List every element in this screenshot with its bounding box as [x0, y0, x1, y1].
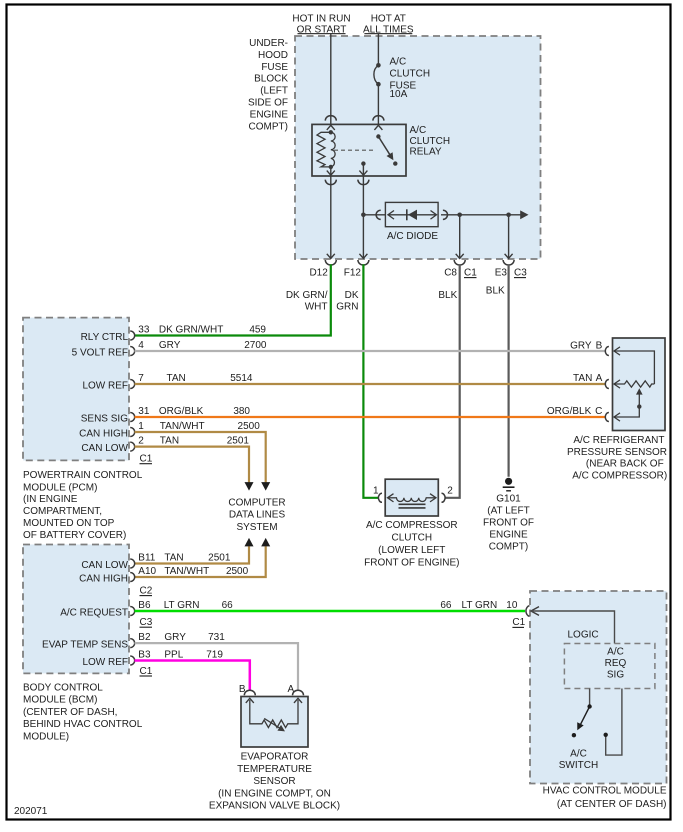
PCM pin arc SENS SIG: [130, 413, 135, 422]
relay pin arrow out (coil low side): [327, 171, 335, 176]
svg-text:CLUTCH: CLUTCH: [410, 136, 451, 147]
PCM row text 2 TAN 2501: [138, 436, 249, 447]
PCM caption: [23, 470, 143, 541]
svg-text:HVAC CONTROL MODULE: HVAC CONTROL MODULE: [543, 785, 667, 796]
svg-text:TAN/WHT: TAN/WHT: [160, 421, 205, 432]
svg-text:C8: C8: [444, 267, 457, 278]
svg-text:FUSE: FUSE: [261, 62, 288, 73]
clutch caption: [364, 520, 459, 569]
svg-text:D12: D12: [309, 267, 328, 278]
svg-text:BLK: BLK: [486, 286, 505, 297]
svg-text:2501: 2501: [208, 553, 231, 564]
svg-text:A/C DIODE: A/C DIODE: [387, 231, 438, 242]
connector arc above relay pin 86: [325, 116, 336, 121]
svg-text:(AT CENTER OF DASH): (AT CENTER OF DASH): [557, 799, 667, 810]
pin labels D12 F12 C8 C1 E3 C3: [309, 267, 527, 278]
arrow can low down: [245, 482, 254, 491]
evap thermistor internal: [250, 700, 298, 734]
svg-text:C2: C2: [140, 585, 153, 596]
wire color labels BLK BLK: [438, 286, 505, 302]
svg-text:C1: C1: [464, 267, 477, 278]
sensor pin A arc: [605, 380, 609, 389]
label G101: [483, 493, 534, 552]
sensor pin C arc: [605, 413, 609, 422]
svg-text:(NEAR BACK OF: (NEAR BACK OF: [586, 459, 664, 470]
svg-text:COMPT): COMPT): [489, 541, 528, 552]
BCM caption: [23, 683, 143, 743]
HVAC caption: [543, 785, 667, 810]
wire tan/wht can high to data lines: [135, 432, 266, 483]
svg-text:UNDER-: UNDER-: [249, 38, 288, 49]
relay pin arrow (switch in): [374, 125, 382, 130]
svg-text:7: 7: [138, 373, 144, 384]
svg-text:A/C REFRIGERANT: A/C REFRIGERANT: [573, 435, 664, 446]
clutch coil internal: [388, 494, 437, 508]
connector arc at diode left: [376, 210, 381, 219]
arrow bcm can low up: [245, 538, 254, 547]
label A/C SWITCH: [559, 748, 598, 771]
svg-text:EXPANSION VALVE BLOCK): EXPANSION VALVE BLOCK): [209, 801, 340, 812]
svg-text:BLOCK: BLOCK: [254, 74, 288, 85]
svg-text:LOW REF: LOW REF: [82, 380, 128, 391]
A/C switch: [572, 704, 592, 737]
svg-text:TAN: TAN: [573, 373, 592, 384]
svg-text:B11: B11: [138, 553, 155, 564]
svg-text:FRONT OF ENGINE): FRONT OF ENGINE): [364, 557, 459, 568]
svg-text:SENSOR: SENSOR: [253, 776, 295, 787]
svg-text:POWERTRAIN CONTROL: POWERTRAIN CONTROL: [23, 470, 143, 481]
svg-text:COMPUTER: COMPUTER: [228, 498, 285, 509]
svg-text:C: C: [595, 406, 602, 417]
BCM connector label C3: [140, 617, 153, 628]
svg-text:COMPARTMENT,: COMPARTMENT,: [23, 506, 102, 517]
PCM row text 31 ORG/BLK 380: [138, 406, 250, 417]
svg-text:TEMPERATURE: TEMPERATURE: [237, 764, 312, 775]
svg-text:SWITCH: SWITCH: [559, 760, 598, 771]
wire down to C8: [459, 215, 461, 259]
svg-text:C3: C3: [140, 617, 153, 628]
BCM pin names: [42, 560, 129, 668]
label A/C REQ SIG: [605, 647, 627, 681]
computer data lines system caption: [228, 498, 285, 533]
svg-text:380: 380: [233, 406, 250, 417]
svg-text:C1: C1: [140, 454, 153, 465]
svg-text:31: 31: [138, 406, 150, 417]
label HOT IN RUN OR START: [292, 14, 350, 36]
underhood fuse block caption: [248, 38, 288, 132]
svg-text:BEHIND HVAC CONTROL: BEHIND HVAC CONTROL: [23, 719, 143, 730]
wire blk C8 down to clutch pin 2: [445, 264, 460, 498]
svg-text:CAN HIGH: CAN HIGH: [79, 428, 128, 439]
sensor pin labels GRY B / TAN A / ORG/BLK C: [547, 340, 603, 417]
diode internal line with arrows: [388, 211, 437, 220]
wire: hot in run feed to relay coil: [330, 34, 332, 133]
svg-text:GRY: GRY: [570, 340, 592, 351]
wire tan can low to data lines: [135, 447, 250, 483]
PCM row text 1 TAN/WHT 2500: [138, 421, 260, 432]
BCM pin arc EVAP TEMP SENS: [130, 639, 135, 648]
svg-text:LOW REF: LOW REF: [82, 657, 128, 668]
svg-text:LOGIC: LOGIC: [568, 630, 599, 641]
evaporator caption: [209, 752, 340, 812]
svg-text:E3: E3: [495, 267, 508, 278]
BCM connector label C1: [140, 666, 153, 677]
svg-text:REQ: REQ: [605, 658, 627, 669]
svg-text:SENS SIG: SENS SIG: [81, 413, 128, 424]
svg-text:C3: C3: [514, 267, 527, 278]
BCM box: [23, 545, 129, 674]
PCM pin arc RLY CTRL: [130, 331, 135, 340]
svg-text:TAN: TAN: [164, 553, 183, 564]
PCM pin arc 5 VOLT REF: [130, 347, 135, 356]
svg-text:EVAP TEMP SENS: EVAP TEMP SENS: [42, 639, 128, 650]
wire ppl low ref to sensor pin B: [135, 661, 250, 691]
evap pin B arrow: [246, 698, 254, 703]
svg-text:4: 4: [138, 340, 144, 351]
svg-text:B3: B3: [138, 650, 151, 661]
svg-text:MODULE (PCM): MODULE (PCM): [23, 482, 97, 493]
svg-text:(AT LEFT: (AT LEFT: [487, 505, 529, 516]
svg-text:ORG/BLK: ORG/BLK: [547, 406, 592, 417]
ground G101: [503, 478, 515, 491]
svg-text:A/C COMPRESSOR): A/C COMPRESSOR): [572, 470, 667, 481]
wire diode to ground branches with end arrow: [441, 210, 529, 219]
A/C compressor clutch box: [385, 479, 438, 516]
svg-text:2: 2: [447, 486, 453, 497]
svg-text:DK: DK: [345, 290, 359, 301]
svg-text:ORG/BLK: ORG/BLK: [159, 406, 204, 417]
svg-text:2: 2: [138, 436, 144, 447]
svg-text:F12: F12: [344, 267, 362, 278]
wire relay coil pin down to D12: [330, 167, 332, 259]
svg-text:TAN/WHT: TAN/WHT: [164, 566, 209, 577]
wire dk grn F12 down to compressor clutch: [363, 264, 378, 498]
connector C8 arrow and arc: [454, 254, 465, 265]
svg-text:2501: 2501: [227, 436, 250, 447]
svg-text:SIG: SIG: [607, 670, 624, 681]
relay dashed actuator link: [334, 149, 376, 151]
svg-text:202071: 202071: [14, 806, 48, 817]
svg-text:GRN: GRN: [336, 301, 358, 312]
arrow bcm can high up: [261, 538, 270, 547]
svg-text:RELAY: RELAY: [410, 147, 442, 158]
wire gry evap temp sens to sensor pin A: [135, 643, 299, 690]
svg-text:5 VOLT REF: 5 VOLT REF: [72, 348, 128, 359]
connector arc below relay common pin: [358, 180, 369, 185]
svg-text:B6: B6: [138, 600, 151, 611]
junction node on F12 wire: [361, 213, 366, 218]
svg-text:MODULE (BCM): MODULE (BCM): [23, 695, 97, 706]
switch contact node: [604, 733, 608, 737]
wire: fuse to relay switch: [377, 84, 379, 136]
svg-text:DK GRN/WHT: DK GRN/WHT: [159, 325, 223, 336]
svg-text:GRY: GRY: [164, 632, 186, 643]
clutch pin 2 connector arc: [442, 493, 446, 502]
wire logic to switch contact: [606, 689, 622, 756]
svg-text:66: 66: [222, 600, 234, 611]
evaporator temperature sensor box: [241, 697, 308, 748]
svg-text:HOT IN RUN: HOT IN RUN: [292, 14, 350, 25]
HVAC pin arc: [526, 606, 530, 617]
relay switch: [376, 134, 397, 166]
connector D12 arrow and arc: [325, 254, 336, 265]
svg-text:SIDE OF: SIDE OF: [248, 98, 288, 109]
BCM pin arc A/C REQUEST: [130, 607, 135, 616]
svg-text:5514: 5514: [230, 373, 253, 384]
svg-text:WHT: WHT: [305, 301, 328, 312]
wire blk E3 down to G101: [508, 264, 510, 477]
svg-text:10A: 10A: [390, 89, 408, 100]
A/C refrigerant pressure sensor box: [613, 338, 666, 431]
connector arc above relay pin 87: [373, 116, 384, 121]
svg-text:COMPT): COMPT): [249, 121, 288, 132]
svg-text:TAN: TAN: [160, 436, 179, 447]
svg-text:1: 1: [138, 421, 144, 432]
svg-text:2700: 2700: [244, 340, 267, 351]
relay common pin node: [361, 161, 365, 165]
svg-text:MODULE): MODULE): [23, 731, 69, 742]
svg-text:CLUTCH: CLUTCH: [392, 533, 433, 544]
wire org/blk sens sig to pressure sensor: [135, 416, 606, 418]
fuse A/C CLUTCH FUSE 10A: [374, 63, 381, 86]
svg-text:A: A: [596, 373, 603, 384]
svg-text:RLY CTRL: RLY CTRL: [81, 332, 129, 343]
wire tan bcm can low to data lines: [135, 546, 250, 563]
svg-text:HOT AT: HOT AT: [371, 14, 406, 25]
svg-text:33: 33: [138, 325, 150, 336]
svg-text:ENGINE: ENGINE: [250, 109, 289, 120]
svg-text:459: 459: [249, 325, 266, 336]
evaporator sensor pin B arc: [244, 690, 255, 695]
relay pin arrow out (common): [359, 171, 367, 176]
svg-text:OF BATTERY COVER): OF BATTERY COVER): [23, 530, 126, 541]
PCM box: [23, 318, 129, 461]
PCM row text 33 DK GRN/WHT 459: [138, 325, 266, 336]
svg-text:(LOWER LEFT: (LOWER LEFT: [378, 545, 445, 556]
pressure sensor caption: [567, 435, 667, 481]
wire tan low ref to pressure sensor: [135, 383, 606, 385]
wire dk grn/wht D12 to PCM RLY CTRL: [135, 264, 331, 335]
svg-text:BLK: BLK: [438, 290, 457, 301]
evap pin A arrow: [294, 698, 302, 703]
wire junction to diode: [363, 214, 385, 216]
svg-text:CLUTCH: CLUTCH: [390, 69, 431, 80]
evaporator sensor pin A arc: [293, 690, 304, 695]
svg-text:719: 719: [206, 650, 223, 661]
PCM connector label C1: [140, 454, 153, 465]
svg-text:GRY: GRY: [159, 340, 181, 351]
A/C clutch relay box: [312, 124, 406, 176]
relay coil: [317, 130, 335, 169]
clutch pin 1 connector arc: [378, 493, 382, 502]
BCM row text B3 PPL 719: [138, 650, 223, 661]
BCM pin arc CAN LOW: [130, 559, 135, 568]
svg-text:(IN ENGINE COMPT, ON: (IN ENGINE COMPT, ON: [218, 788, 331, 799]
BCM row text A10 TAN/WHT 2500: [138, 566, 248, 577]
connector E3 arrow and arc: [503, 254, 514, 265]
PCM pin arc CAN LOW: [130, 442, 135, 451]
PCM pin arc LOW REF: [130, 380, 135, 389]
svg-text:C1: C1: [512, 617, 525, 628]
svg-text:PPL: PPL: [164, 650, 183, 661]
arrow can high down: [261, 482, 270, 491]
connector arc below relay coil pin: [325, 180, 336, 185]
relay label: [410, 125, 451, 158]
svg-text:10: 10: [506, 600, 518, 611]
svg-text:HOOD: HOOD: [258, 50, 288, 61]
svg-text:2500: 2500: [238, 421, 261, 432]
HVAC control module box: [530, 591, 667, 784]
svg-text:66: 66: [440, 600, 452, 611]
wire logic to switch blade: [589, 689, 591, 707]
A/C diode box: [385, 202, 438, 226]
svg-text:G101: G101: [496, 493, 521, 504]
svg-text:(LEFT: (LEFT: [260, 86, 288, 97]
BCM row text B11 TAN 2501: [138, 553, 231, 564]
svg-text:DATA LINES: DATA LINES: [229, 510, 286, 521]
svg-text:B2: B2: [138, 632, 151, 643]
wire color labels DK GRN/WHT and DK GRN: [286, 290, 359, 312]
svg-text:EVAPORATOR: EVAPORATOR: [241, 752, 309, 763]
sensor internal potentiometer: [614, 347, 654, 421]
label A/C CLUTCH FUSE 10A: [390, 57, 431, 100]
svg-text:CAN LOW: CAN LOW: [81, 443, 128, 454]
svg-text:SYSTEM: SYSTEM: [236, 522, 277, 533]
junction node C8 branch: [457, 213, 462, 218]
wire down to E3: [508, 215, 510, 259]
wire hvac pin to logic: [531, 611, 615, 644]
svg-text:A/C: A/C: [570, 748, 587, 759]
sensor pin B arc: [605, 347, 609, 356]
BCM pin arc LOW REF: [130, 656, 135, 665]
wire lt grn a/c request to hvac: [135, 610, 526, 613]
diode symbol: [407, 209, 417, 220]
BCM connector label C2: [140, 585, 153, 596]
svg-text:PRESSURE SENSOR: PRESSURE SENSOR: [567, 447, 667, 458]
svg-text:DK GRN/: DK GRN/: [286, 290, 328, 301]
wire relay common pin down to F12: [362, 164, 364, 259]
BCM pin arc CAN HIGH: [130, 573, 135, 582]
HVAC pin arrow: [531, 607, 539, 616]
wire: hot at all times feed to fuse: [377, 34, 379, 66]
label 66 LT GRN 10: [440, 600, 517, 611]
svg-text:LT GRN: LT GRN: [164, 600, 200, 611]
BCM row text B2 GRY 731: [138, 632, 225, 643]
svg-text:LT GRN: LT GRN: [462, 600, 498, 611]
svg-text:1: 1: [373, 486, 379, 497]
svg-text:A/C: A/C: [410, 125, 427, 136]
svg-text:B: B: [596, 340, 603, 351]
svg-text:A10: A10: [138, 566, 156, 577]
HVAC connector label C1: [512, 617, 525, 628]
PCM row text 4 GRY 2700: [138, 340, 267, 351]
logic dashed box: [564, 644, 655, 689]
svg-text:2500: 2500: [226, 566, 249, 577]
svg-text:A/C: A/C: [390, 57, 407, 68]
svg-text:BODY CONTROL: BODY CONTROL: [23, 683, 103, 694]
wire tan/wht bcm can high to data lines: [135, 546, 266, 577]
svg-text:(IN ENGINE: (IN ENGINE: [23, 494, 78, 505]
svg-text:FRONT OF: FRONT OF: [483, 517, 534, 528]
svg-text:731: 731: [208, 632, 225, 643]
PCM pin names: [72, 332, 129, 454]
relay pin arrow (coil in): [327, 125, 335, 130]
junction node E3 branch: [506, 213, 511, 218]
svg-text:A/C REQUEST: A/C REQUEST: [60, 607, 128, 618]
svg-text:ENGINE: ENGINE: [489, 529, 528, 540]
svg-text:C1: C1: [140, 666, 153, 677]
svg-text:MOUNTED ON TOP: MOUNTED ON TOP: [23, 518, 115, 529]
svg-text:TAN: TAN: [167, 373, 186, 384]
svg-text:A/C COMPRESSOR: A/C COMPRESSOR: [366, 520, 458, 531]
connector F12 arrow and arc: [358, 254, 369, 265]
label HOT AT ALL TIMES: [363, 14, 414, 36]
underhood fuse block box: [295, 36, 541, 259]
PCM row text 7 TAN 5514: [138, 373, 253, 384]
PCM pin arc CAN HIGH: [130, 428, 135, 437]
wire gry 5 volt ref to pressure sensor: [135, 350, 606, 352]
svg-text:CAN LOW: CAN LOW: [81, 560, 128, 571]
svg-text:A/C: A/C: [607, 647, 624, 658]
BCM row text B6 LT GRN 66: [138, 600, 233, 611]
svg-text:CAN HIGH: CAN HIGH: [79, 573, 128, 584]
connector arc at diode right: [443, 210, 448, 219]
svg-text:(CENTER OF DASH,: (CENTER OF DASH,: [23, 707, 117, 718]
